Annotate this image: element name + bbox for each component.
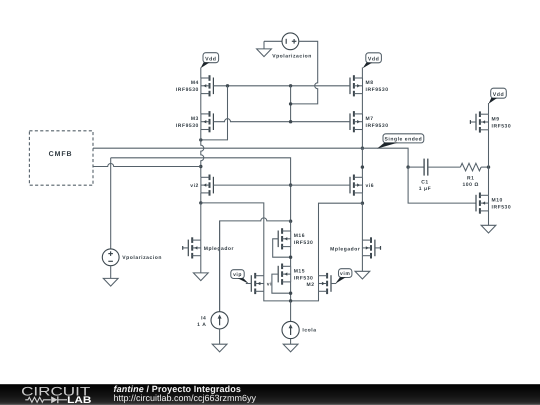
ground G4 (I4): [212, 329, 227, 352]
wire I4 line (hop over vi drain wire): [220, 218, 291, 312]
transistor Mplegador (right): [330, 237, 380, 258]
svg-text:C1: C1: [421, 179, 429, 185]
wire fold right to M2 drain: [319, 203, 363, 276]
svg-text:Vpolarizacion: Vpolarizacion: [122, 255, 162, 261]
flag Vdd (M9): [489, 88, 507, 104]
wire fold left to vi drain: [201, 203, 264, 276]
wire M7 drain to output node: [361, 130, 363, 149]
node junction fold left: [199, 201, 202, 204]
wire M3 drain down (hops over CMFB lines A,B): [201, 130, 204, 178]
svg-text:vim: vim: [340, 271, 350, 277]
wire gate line M4-M8 (node bias1): [213, 85, 350, 87]
label I4: [201, 316, 206, 322]
node junction tail bus / Icola: [289, 299, 292, 302]
label Icola: [302, 328, 316, 334]
wire R1 to M9/M10 node: [481, 166, 488, 168]
svg-text:Vdd: Vdd: [205, 56, 216, 62]
label Vpolarizacion (V1): [272, 54, 312, 60]
flag vip: [231, 270, 249, 284]
svg-text:Mplegador: Mplegador: [204, 246, 234, 252]
svg-text:Vpolarizacion: Vpolarizacion: [272, 54, 312, 60]
ground G1 (top, V1 minus): [257, 41, 272, 56]
CircuitLab logo resistor zigzag: [25, 397, 51, 402]
bar url text: [114, 393, 257, 403]
ground G3 (Mplegador left source): [193, 256, 208, 281]
node junction line B / M16 drain: [289, 220, 292, 223]
resistor R1: [460, 163, 481, 171]
svg-text:M8: M8: [366, 80, 374, 86]
wire M16 drain: [290, 221, 292, 231]
current source I4 1A: [211, 312, 228, 329]
wire M16 source to M15 drain: [290, 247, 292, 267]
label Vpolarizacion (V2): [122, 255, 162, 261]
wire M15 source down to tail bus: [290, 282, 292, 301]
node junction line B / input gate rail: [289, 183, 292, 186]
wire gate line M3-M7 (hop over feedback wire): [213, 119, 350, 122]
svg-text:IRF530: IRF530: [492, 123, 512, 129]
wire Vpol2 drop: [110, 158, 112, 249]
transistor M8 IRF9530: [350, 75, 389, 96]
wire tail bus (vi source to M2 source): [264, 291, 319, 301]
transistor vi2: [190, 175, 213, 196]
node junction M16 source / gate tie: [289, 256, 292, 259]
svg-text:100 Ω: 100 Ω: [462, 182, 479, 188]
ground G7 (M10 source): [481, 211, 496, 233]
CircuitLab logo text CIRCUIT: [21, 385, 91, 399]
svg-text:M3: M3: [191, 116, 199, 122]
transistor M16 IRF530: [278, 228, 313, 249]
transistor vi (input device): [251, 273, 272, 294]
svg-text:IRF9530: IRF9530: [366, 87, 389, 93]
wire CMFB line B (Vpol2 to input gate rail): [111, 158, 291, 221]
wire Vdd to M8 source: [361, 67, 363, 78]
flag Vdd (M8): [363, 53, 382, 69]
wire CMFB output A to single-ended node: [93, 148, 408, 167]
ground G5 (Icola): [283, 339, 298, 352]
svg-text:LAB: LAB: [67, 395, 91, 405]
svg-text:http://circuitlab.com/ccj663rz: http://circuitlab.com/ccj663rzmm6yy: [114, 393, 257, 403]
svg-text:vi: vi: [267, 282, 272, 288]
wire input gate rail vi2-vi6: [213, 184, 350, 186]
wire Vpol V1 minus lead: [264, 40, 282, 42]
node junction bias1/bias vertical: [289, 84, 292, 87]
node junction vi2 drain / CMFB line C: [199, 165, 202, 168]
wire output node to vi6 drain: [361, 148, 363, 177]
svg-text:IRF530: IRF530: [294, 240, 314, 246]
wire M8 drain to M7 source: [361, 94, 363, 114]
CircuitLab logo text LAB: [67, 395, 91, 405]
svg-text:1 μF: 1 μF: [419, 186, 431, 192]
svg-text:M10: M10: [492, 198, 503, 204]
transistor M9 IRF530: [470, 111, 511, 132]
ground G6 (Mplegador right source): [355, 256, 370, 279]
svg-text:CMFB: CMFB: [49, 151, 73, 158]
node junction single-ended output: [361, 147, 364, 150]
wire M4 drain to M3 source: [200, 94, 202, 114]
wire Vdd to M9 drain: [488, 103, 490, 114]
wire C1 left lead: [408, 166, 424, 168]
wire vip tail to vi gate: [246, 283, 252, 285]
svg-text:M16: M16: [294, 233, 305, 239]
wire V1 plus to bias rail (hop over M4-M8 gate line): [291, 41, 318, 104]
wire C1 to R1: [428, 166, 461, 168]
node junction M15 source / gate tie: [289, 292, 292, 295]
svg-text:Vdd: Vdd: [493, 92, 504, 98]
label 1 A: [197, 322, 206, 328]
svg-text:1 A: 1 A: [197, 322, 206, 328]
wire I4 line to current source: [219, 221, 221, 312]
svg-text:Icola: Icola: [302, 328, 316, 334]
wire fold left down to MplegadorL drain: [200, 203, 202, 240]
bar title text: [114, 384, 242, 394]
wire M10 gate line: [408, 167, 476, 203]
wire vi6 source to fold node: [361, 193, 363, 203]
current source Icola: [282, 321, 299, 338]
label 100 Ohm: [462, 182, 479, 188]
label 1 uF: [419, 186, 431, 192]
svg-text:R1: R1: [467, 175, 475, 181]
label R1: [467, 175, 475, 181]
svg-text:vi6: vi6: [366, 183, 375, 189]
wire Vdd to M4 source: [200, 67, 202, 78]
voltage source V2 Vpolarizacion: [102, 249, 119, 266]
node junction output/vi6 segment: [361, 165, 364, 168]
wire vim tail to M2 gate: [331, 283, 336, 285]
block CMFB: [29, 131, 93, 185]
node junction M4 gate feedback: [226, 84, 229, 87]
transistor M7 IRF9530: [350, 111, 389, 132]
transistor M10 IRF530: [476, 193, 511, 214]
wire vi2 source to fold node: [200, 193, 202, 203]
wire M16 gate to source node: [273, 239, 291, 257]
flag vim: [335, 269, 352, 284]
svg-text:vi2: vi2: [190, 183, 199, 189]
node junction M3 drain / feedback: [199, 138, 202, 141]
wire M9 source down to node: [488, 130, 490, 167]
transistor vi6: [350, 175, 374, 196]
transistor M4 IRF9530: [176, 75, 214, 96]
wire node to M10 drain: [488, 167, 490, 195]
node junction bias vertical / V1 wire: [289, 102, 292, 105]
svg-text:M7: M7: [366, 116, 374, 122]
svg-text:M9: M9: [492, 116, 500, 122]
svg-text:Single ended: Single ended: [385, 137, 423, 143]
wire CMFB output C (hop over Vpol2 drop): [93, 164, 201, 167]
node junction R1 / M9 source: [487, 165, 490, 168]
wire bias vertical (Vpol to gate rails): [290, 86, 292, 122]
wire M15 gate to source node: [272, 274, 291, 293]
wire Icola stem: [290, 301, 292, 322]
ground G2 (V2 minus): [103, 266, 118, 286]
svg-text:Vdd: Vdd: [368, 56, 379, 62]
CircuitLab logo diode: [51, 396, 67, 403]
node junction fold right: [361, 202, 364, 205]
svg-text:M2: M2: [307, 282, 315, 288]
capacitor C1: [424, 159, 428, 176]
voltage source V1 Vpolarizacion: [282, 33, 299, 50]
svg-text:M4: M4: [191, 80, 199, 86]
node junction bias2 vertical: [289, 120, 292, 123]
flag Vdd (M4): [201, 53, 219, 69]
svg-text:IRF9530: IRF9530: [176, 123, 199, 129]
transistor Mplegador (left): [183, 237, 234, 258]
svg-text:vip: vip: [233, 272, 242, 278]
wire M4 gate-drain feedback: [201, 86, 228, 140]
label M2: [307, 282, 315, 288]
svg-text:IRF530: IRF530: [294, 276, 314, 282]
svg-text:IRF9530: IRF9530: [366, 123, 389, 129]
transistor M2: [319, 273, 332, 294]
wire fold right down to MplegadorR drain: [361, 203, 363, 240]
svg-text:M15: M15: [294, 269, 305, 275]
transistor M15 IRF530: [278, 264, 313, 285]
svg-text:IRF530: IRF530: [492, 205, 512, 211]
label C1: [421, 179, 429, 185]
node junction output / C1 branch: [406, 165, 409, 168]
flag Single ended: [377, 134, 424, 149]
svg-text:Mplegador: Mplegador: [330, 246, 360, 252]
bottom info bar: [0, 384, 540, 405]
svg-text:IRF9530: IRF9530: [176, 87, 199, 93]
transistor M3 IRF9530: [176, 111, 214, 132]
svg-text:I4: I4: [201, 316, 206, 322]
